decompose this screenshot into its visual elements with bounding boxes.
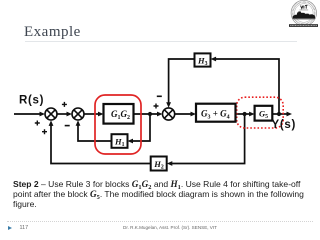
footer arrow icon	[8, 226, 12, 230]
footer divider	[7, 221, 313, 222]
sign + for H2 input at S1	[42, 129, 47, 134]
summing junction S1	[45, 108, 57, 120]
arrowhead into S3	[157, 112, 163, 117]
sign + for R input at S1	[35, 121, 40, 126]
summing junction S3	[163, 108, 175, 120]
banner text	[290, 24, 317, 26]
arrowhead into G3G4	[191, 112, 197, 117]
step text paragraph	[13, 179, 320, 209]
arrowhead into S2 bottom	[76, 120, 81, 126]
wire R(s) input	[14, 113, 41, 115]
node after G3G4	[243, 112, 247, 116]
wire S2 to G1G2	[84, 113, 99, 115]
silhouette base	[293, 16, 315, 18]
footer credit	[0, 225, 320, 230]
banner	[289, 24, 318, 27]
svg-text:Y(s): Y(s)	[272, 119, 297, 131]
base reflection	[293, 18, 314, 21]
arrowhead into S2	[67, 112, 73, 117]
landscape silhouette	[293, 11, 315, 18]
wire takeoff to H2	[171, 114, 245, 164]
ring text band	[293, 2, 315, 24]
outer ring	[291, 0, 316, 25]
arrowhead into H1	[128, 139, 134, 144]
wire S1 to S2	[57, 113, 68, 115]
wire H3 to S3	[169, 59, 195, 104]
wire G1G2 to S3	[134, 113, 159, 115]
arrowhead into G1G2	[98, 112, 104, 117]
node after G5	[277, 112, 281, 116]
inner ring	[295, 4, 314, 23]
block G3+G4	[196, 104, 236, 122]
arrowhead into S3 top	[166, 102, 171, 108]
arrowhead into S1	[40, 112, 46, 117]
wire H2 to S1	[51, 124, 151, 163]
red rounded box around G1G2 and H1	[95, 95, 141, 154]
wire takeoff to H1	[132, 114, 151, 141]
arrowhead output	[287, 112, 293, 117]
red dashed box around G5	[237, 97, 284, 128]
slide title	[24, 24, 81, 41]
wire S3 to G3G4	[175, 113, 192, 115]
wire takeoff to H3	[215, 59, 279, 114]
sign + for left input at S3	[154, 104, 159, 109]
block H1	[112, 134, 128, 148]
arrowhead into G5	[249, 112, 255, 117]
block G5	[255, 106, 273, 121]
VIT logo seal	[284, 0, 320, 30]
page number	[20, 225, 29, 231]
arrowhead into S1 bottom	[49, 120, 54, 126]
wire G5 to output	[273, 113, 289, 115]
node after G1G2	[148, 112, 152, 116]
VIT text	[301, 6, 308, 9]
arrowhead into H2	[167, 161, 173, 166]
wire G3G4 to G5	[236, 113, 251, 115]
sign - for H1 input at S2	[65, 125, 70, 127]
svg-text:R(s): R(s)	[19, 95, 44, 107]
summing junction S2	[72, 108, 84, 120]
title underline	[25, 41, 297, 42]
sign - for H3 input at S3	[157, 95, 162, 97]
block H3	[195, 53, 211, 67]
sign + for left input at S2	[62, 102, 67, 107]
motto line	[299, 9, 308, 12]
block H2	[151, 157, 167, 171]
arrowhead into H3	[211, 57, 217, 62]
block G1G2	[104, 104, 134, 124]
wire H1 to S2	[78, 124, 112, 141]
